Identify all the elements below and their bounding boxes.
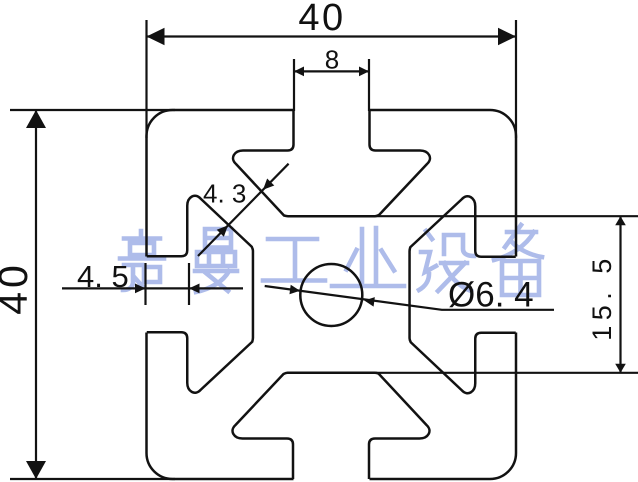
dim 4.5: left extension tick xyxy=(144,263,146,305)
watermark char 备 xyxy=(494,225,542,295)
dim 4.5: right extension tick xyxy=(188,263,190,305)
T-slot top xyxy=(233,110,430,216)
dim 40 left: dimension line xyxy=(35,110,37,479)
dim 40 left: bottom arrow xyxy=(26,461,46,479)
watermark char 业 xyxy=(332,228,404,286)
dim 4.5: left arrow xyxy=(135,284,146,294)
T-slot bottom xyxy=(233,373,430,479)
dim 15.5: top arrow xyxy=(615,216,626,225)
dim dia 6.4: right arrow xyxy=(364,296,375,307)
T-slot left xyxy=(147,196,253,393)
dim 4.5: dimension line xyxy=(62,287,243,289)
dim 40 left: bottom extension line xyxy=(10,478,175,480)
dim 40 top: right arrow xyxy=(498,28,516,45)
dim 15.5: bottom arrow xyxy=(615,364,626,373)
dim 8: left extension line xyxy=(293,59,295,111)
svg-text:4. 3: 4. 3 xyxy=(203,179,246,209)
dim 40 top: right extension line xyxy=(515,20,517,138)
dim dia 6.4: left arrow xyxy=(289,285,300,296)
dim 8: left arrow xyxy=(294,67,304,77)
dim 8: dimension line xyxy=(294,70,369,72)
dim 40 left: top extension line xyxy=(10,109,175,111)
watermark char 工 xyxy=(263,239,325,281)
dim 40 left: top arrow xyxy=(26,110,46,128)
profile outer contour xyxy=(147,110,517,479)
dim 4.3: lower arrow xyxy=(217,222,232,237)
dim 8: right extension line xyxy=(368,59,370,111)
dim 40 top: left extension line xyxy=(145,20,147,138)
dim 4.5: right arrow xyxy=(189,284,200,294)
svg-text:8: 8 xyxy=(325,45,339,75)
watermark char 设 xyxy=(419,231,474,291)
dim 40 top: left arrow xyxy=(147,28,165,45)
dim dia 6.4: leader line xyxy=(265,286,554,310)
svg-text:4. 5: 4. 5 xyxy=(77,259,129,294)
center hole circle Ø6.4 xyxy=(300,264,362,326)
watermark char 嘉 xyxy=(120,231,164,290)
watermark char 曼 xyxy=(195,229,237,292)
dim 40 top: dimension line xyxy=(147,35,517,37)
svg-text:40: 40 xyxy=(298,0,345,39)
dim 15.5: top extension line xyxy=(374,215,638,217)
dim 4.3: upper arrow xyxy=(259,178,274,193)
dim 15.5: dimension line xyxy=(619,216,621,373)
dim 15.5: bottom extension line xyxy=(374,372,638,374)
svg-text:15. 5: 15. 5 xyxy=(587,253,617,341)
T-slot right xyxy=(410,196,516,393)
dim 4.3: dimension line xyxy=(198,164,289,256)
svg-text:40: 40 xyxy=(0,261,36,315)
dim 8: right arrow xyxy=(359,67,369,77)
svg-text:Ø6. 4: Ø6. 4 xyxy=(448,276,534,315)
